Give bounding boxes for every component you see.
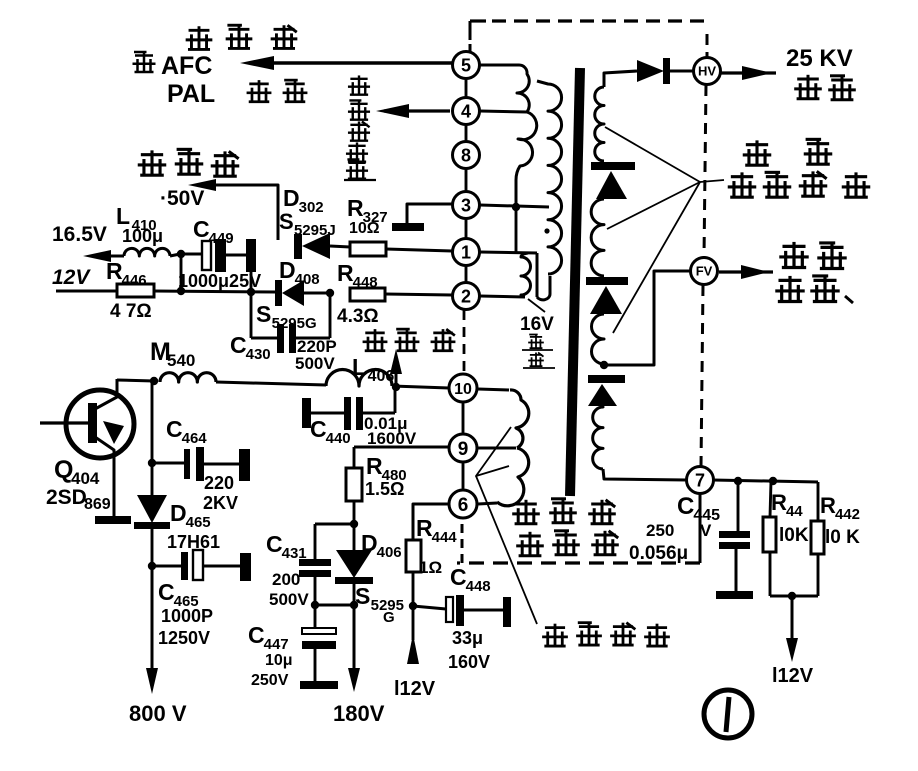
svg-text:AFC: AFC	[161, 52, 212, 80]
wire secondary bottom to pin7	[603, 469, 687, 480]
svg-text:12V: 12V	[52, 266, 91, 289]
svg-text:l12V: l12V	[772, 665, 814, 687]
resistor R448	[350, 288, 452, 301]
node junction R444/C448	[409, 602, 417, 610]
node junction R441	[769, 477, 777, 485]
label 次级	[743, 139, 833, 165]
svg-text:C: C	[166, 416, 183, 442]
svg-text:160V: 160V	[448, 652, 490, 672]
diode secondary D-a	[591, 162, 635, 199]
wire R446 to D408	[154, 291, 276, 292]
label 12V	[52, 266, 91, 289]
wire 行AFC arrow from pin 5	[240, 56, 452, 70]
label D406	[361, 530, 402, 561]
winding pin9-pin6	[497, 448, 529, 506]
node junction C430 left	[247, 272, 255, 296]
svg-text:6: 6	[458, 495, 469, 516]
terminal FV	[691, 258, 718, 285]
svg-text:R: R	[337, 260, 354, 286]
resistor R442	[811, 521, 824, 596]
svg-text:HV: HV	[698, 64, 716, 79]
wire 行偏转 arrow	[390, 349, 402, 386]
node junction D406/C431 bottom	[350, 601, 358, 609]
label R441	[771, 490, 803, 520]
wire 16.5V arrow	[83, 250, 124, 262]
diode D465	[134, 463, 170, 566]
pointer 次级高压绕组	[605, 127, 724, 333]
terminal HV	[694, 58, 721, 85]
svg-text:V: V	[700, 521, 712, 540]
label S5295G	[256, 301, 317, 332]
svg-text:D: D	[283, 185, 300, 211]
node junction C431/C447	[311, 601, 354, 609]
inductor L410	[124, 248, 180, 256]
svg-text:4.3Ω: 4.3Ω	[337, 306, 379, 327]
label 1ohm	[419, 558, 442, 577]
tap bar above R327	[392, 223, 424, 231]
svg-text:1000μ25V: 1000μ25V	[178, 271, 261, 291]
svg-text:R: R	[416, 515, 433, 541]
wire collector to M540	[117, 380, 154, 381]
svg-text:l12V: l12V	[394, 678, 436, 700]
winding right column tail	[537, 253, 550, 300]
svg-text:16V: 16V	[520, 314, 554, 335]
svg-text:465: 465	[186, 514, 211, 531]
node junction C464	[148, 459, 156, 467]
label 16V绕组	[520, 314, 555, 368]
label 1.5ohm	[365, 479, 404, 499]
capacitor C431	[299, 559, 331, 605]
wire 112V arrow right	[786, 596, 798, 662]
mark circled 1	[704, 690, 752, 738]
pin 7	[687, 467, 714, 494]
label 500V	[295, 354, 335, 373]
wire pin6 to R444	[413, 504, 449, 540]
capacitor C449	[181, 239, 256, 272]
svg-text:D: D	[170, 500, 187, 526]
label 高压绕组	[728, 171, 871, 197]
svg-text:C: C	[230, 332, 247, 358]
svg-text:464: 464	[182, 430, 208, 447]
label 10K r442	[825, 527, 860, 548]
svg-text:1250V: 1250V	[158, 628, 210, 648]
pin 2	[453, 283, 480, 310]
label 100u	[122, 226, 163, 246]
node junction L406/deflection	[392, 383, 400, 391]
svg-text:2KV: 2KV	[203, 493, 238, 513]
pin 10	[449, 374, 477, 402]
winding secondary s2	[591, 199, 604, 276]
flyback transformer enclosure (dashed outline)	[457, 21, 708, 563]
label 电压、	[775, 276, 853, 303]
label 0.01u	[364, 414, 408, 433]
label 16.5V	[52, 223, 107, 246]
label 显象管灯丝 (vertical)	[344, 75, 376, 180]
svg-text:448: 448	[353, 274, 378, 291]
label 800V	[129, 701, 187, 726]
svg-text:1: 1	[461, 242, 471, 262]
inductor M540	[160, 373, 326, 385]
label 112V mid	[394, 678, 436, 700]
label 10ohm	[349, 220, 380, 237]
svg-text:l0 K: l0 K	[825, 527, 860, 548]
svg-text:250: 250	[646, 521, 674, 540]
svg-text:9: 9	[458, 439, 469, 460]
svg-text:C: C	[266, 531, 283, 557]
capacitor C430	[277, 324, 296, 353]
node junction collector branch	[150, 377, 158, 385]
svg-text:1000P: 1000P	[161, 606, 213, 626]
svg-text:1600V: 1600V	[367, 429, 417, 448]
label D302	[283, 185, 324, 216]
label 行AFC	[133, 52, 213, 80]
svg-text:4 7Ω: 4 7Ω	[110, 301, 152, 322]
svg-text:R: R	[366, 453, 383, 479]
label 聚焦	[779, 242, 846, 269]
node junction L410/C449	[177, 250, 185, 258]
pin 4	[453, 98, 480, 125]
wire pin10 stub	[478, 389, 509, 390]
label R480	[366, 453, 407, 484]
label 500V c431	[269, 590, 309, 609]
capacitor C465	[152, 550, 251, 581]
label C448	[450, 564, 491, 595]
label 1600V	[367, 429, 417, 448]
wire C430 loop	[251, 292, 330, 338]
winding 16V pin1-pin2	[521, 253, 531, 297]
label 2KV	[203, 493, 238, 513]
svg-text:R: R	[771, 490, 787, 515]
node junction 12V/C449	[177, 254, 185, 295]
wire pin5 stub	[480, 64, 519, 67]
wire FV output arrow	[719, 265, 773, 279]
node junction C465	[148, 562, 156, 570]
label 初级绕组	[542, 623, 670, 646]
svg-text:0.056μ: 0.056μ	[629, 543, 688, 564]
label 1000P	[161, 606, 213, 626]
transistor Q404	[40, 379, 134, 524]
svg-text:l0K: l0K	[779, 525, 809, 546]
label 1000u25V	[178, 271, 261, 291]
label 33u	[452, 628, 483, 648]
wire CRT filament arrow from pin 4	[376, 104, 450, 118]
svg-text:G: G	[383, 609, 395, 626]
svg-text:C: C	[310, 416, 327, 442]
wire pin7 to resistors	[713, 480, 818, 521]
capacitor C448	[413, 595, 511, 627]
svg-text:408: 408	[295, 271, 320, 288]
label 4.3ohm	[337, 306, 379, 327]
capacitor C464	[152, 447, 250, 481]
svg-text:S: S	[256, 301, 271, 327]
label 10K r441	[779, 525, 809, 546]
pin 3	[453, 192, 480, 219]
label 112V right	[772, 665, 814, 687]
capacitor C447	[300, 605, 338, 689]
label S5295J	[279, 209, 336, 239]
wire 180V arrow	[348, 605, 360, 692]
label 47ohm	[110, 301, 152, 322]
label C464	[166, 416, 207, 447]
node junction D408/R448/C430	[326, 289, 334, 297]
svg-text:200: 200	[272, 570, 300, 589]
label R442	[820, 493, 860, 523]
label S5295 G	[355, 583, 404, 626]
wire collector branch down	[151, 381, 154, 463]
label Q404	[54, 456, 100, 488]
label C447	[248, 622, 289, 653]
svg-text:449: 449	[209, 230, 234, 247]
label 220	[204, 473, 234, 493]
svg-text:10μ: 10μ	[265, 652, 293, 669]
winding pin4-tap	[516, 112, 537, 207]
diode D406	[335, 524, 373, 605]
svg-text:C: C	[193, 216, 210, 242]
svg-text:5: 5	[461, 55, 471, 75]
label 17H61	[167, 532, 220, 552]
pointer 初级绕组 lines	[476, 427, 537, 624]
svg-text:302: 302	[299, 199, 324, 216]
svg-text:800 V: 800 V	[129, 701, 187, 726]
svg-text:25 KV: 25 KV	[786, 45, 853, 72]
svg-text:2SD: 2SD	[46, 486, 87, 509]
label 行输出变压器	[512, 499, 619, 556]
label C431	[266, 531, 307, 562]
wire pin1 stub	[480, 252, 537, 253]
svg-text:3: 3	[461, 195, 471, 215]
label C445	[677, 493, 720, 524]
svg-text:442: 442	[835, 506, 860, 523]
wire 场输出 arrow	[188, 179, 278, 240]
node junction FV tap	[600, 361, 608, 369]
winding right column	[537, 81, 562, 274]
svg-text:L: L	[352, 354, 366, 380]
diode secondary D-c	[588, 375, 625, 406]
wire resistor bottoms	[770, 595, 818, 598]
wire C431 branch	[315, 524, 354, 559]
svg-text:440: 440	[326, 430, 351, 447]
svg-text:431: 431	[282, 545, 307, 562]
svg-text:R: R	[820, 493, 836, 518]
wire 12V	[56, 290, 117, 293]
svg-text:446: 446	[122, 272, 147, 289]
svg-text:D: D	[361, 530, 378, 556]
svg-text:5295J: 5295J	[294, 222, 336, 239]
svg-text:500V: 500V	[295, 354, 335, 373]
pin 9	[449, 434, 477, 462]
resistor R446	[117, 284, 154, 297]
label 行偏转	[363, 329, 456, 351]
wire tap down to pin1 line	[515, 207, 518, 253]
resistor R444	[406, 540, 421, 606]
label 50V	[160, 187, 204, 210]
capacitor C440	[302, 397, 363, 430]
svg-text:C: C	[158, 579, 175, 605]
wire pin9 stub	[478, 447, 516, 450]
svg-text:447: 447	[264, 636, 289, 653]
wire 800V arrow	[146, 566, 158, 694]
diode D302	[294, 233, 350, 259]
node junction winding tap pin3	[512, 203, 520, 211]
svg-text:R: R	[347, 195, 364, 221]
svg-text:1.5Ω: 1.5Ω	[365, 479, 404, 499]
svg-text:R: R	[106, 258, 123, 284]
svg-text:500V: 500V	[269, 590, 309, 609]
capacitor C445	[716, 481, 753, 599]
label R327	[347, 195, 388, 226]
svg-text:444: 444	[432, 529, 458, 546]
svg-text:C: C	[450, 564, 467, 590]
svg-text:100μ: 100μ	[122, 226, 163, 246]
wire HV output arrow	[721, 66, 776, 80]
resistor R327	[350, 242, 452, 256]
label 10u	[265, 652, 293, 669]
svg-text:406: 406	[368, 368, 395, 385]
label C440	[310, 416, 351, 447]
label 行消隐	[186, 25, 298, 49]
label 高压 top	[794, 75, 856, 100]
wire C440 branch	[311, 387, 395, 413]
label R448	[337, 260, 378, 291]
svg-text:406: 406	[377, 544, 402, 561]
wire pin2 stub	[480, 296, 525, 297]
winding secondary s1	[595, 87, 604, 161]
diode secondary D-b	[586, 277, 628, 314]
winding secondary s3	[592, 314, 605, 364]
svg-text:4: 4	[461, 101, 471, 121]
diode HV rectifier	[637, 58, 693, 84]
wire pin3 to tap bar	[407, 204, 452, 224]
svg-text:C: C	[248, 622, 265, 648]
wire pin9 to R480	[354, 447, 449, 468]
wire pin4 stub	[480, 111, 527, 112]
svg-text:10Ω: 10Ω	[349, 220, 380, 237]
label 200	[272, 570, 300, 589]
pin 8	[453, 142, 480, 169]
svg-text:10: 10	[454, 381, 472, 398]
label 220P	[297, 337, 337, 356]
label PAL解码	[167, 80, 307, 108]
stray scan dot	[544, 228, 549, 233]
label 250V c445	[646, 521, 712, 540]
label D408	[279, 257, 320, 288]
label C449	[193, 216, 234, 247]
label C430	[230, 332, 271, 363]
svg-text:44: 44	[786, 503, 803, 520]
svg-text:·50V: ·50V	[160, 187, 204, 210]
label 2SD869	[46, 486, 111, 513]
svg-text:1Ω: 1Ω	[419, 558, 442, 577]
label 180V	[333, 701, 385, 726]
label M540	[150, 338, 195, 370]
svg-text:FV: FV	[696, 264, 713, 279]
resistor R480	[346, 468, 362, 524]
transformer core	[570, 68, 580, 496]
wire FV tap	[604, 271, 690, 365]
label R446	[106, 258, 147, 289]
winding pin10-pin9	[510, 390, 529, 448]
label 160V	[448, 652, 490, 672]
label C465	[158, 579, 199, 610]
svg-text:7: 7	[695, 470, 705, 490]
resistor R441	[763, 481, 776, 596]
svg-text:16.5V: 16.5V	[52, 223, 107, 246]
svg-text:33μ: 33μ	[452, 628, 483, 648]
label D465	[170, 500, 211, 531]
diode D408	[275, 280, 330, 306]
label 0.056u	[629, 543, 688, 564]
node junction R480/D406/C431	[350, 520, 358, 528]
svg-text:220: 220	[204, 473, 234, 493]
label R444	[416, 515, 457, 546]
pin 1	[453, 239, 480, 266]
label L410	[116, 203, 157, 234]
label L406	[352, 354, 394, 385]
pin 6	[449, 490, 477, 518]
label 25KV	[786, 45, 853, 72]
node junction 112V right	[788, 592, 796, 600]
svg-text:430: 430	[246, 346, 271, 363]
svg-text:180V: 180V	[333, 701, 385, 726]
svg-text:C: C	[677, 493, 694, 520]
svg-text:2: 2	[461, 286, 471, 306]
svg-text:250V: 250V	[251, 672, 289, 689]
label 1250V	[158, 628, 210, 648]
node junction C445	[734, 477, 742, 485]
svg-text:PAL: PAL	[167, 80, 215, 108]
pin 5	[453, 52, 480, 79]
svg-text:8: 8	[461, 145, 471, 165]
wire 112V arrow mid	[407, 606, 419, 664]
label 250V	[251, 672, 289, 689]
wire pin3 stub	[480, 205, 549, 207]
inductor L406	[326, 370, 449, 389]
svg-text:S: S	[279, 209, 294, 234]
svg-text:D: D	[279, 257, 296, 283]
winding pin5-pin4	[517, 65, 529, 112]
svg-text:869: 869	[84, 496, 111, 513]
label 场输出	[138, 149, 240, 176]
wire secondary top	[604, 71, 637, 87]
pointer 16V winding	[528, 299, 545, 312]
svg-text:540: 540	[167, 351, 195, 370]
svg-text:448: 448	[466, 578, 491, 595]
wire pin6 stub	[478, 503, 497, 504]
winding secondary s4	[593, 406, 603, 469]
wire pin column stubs	[463, 79, 466, 490]
